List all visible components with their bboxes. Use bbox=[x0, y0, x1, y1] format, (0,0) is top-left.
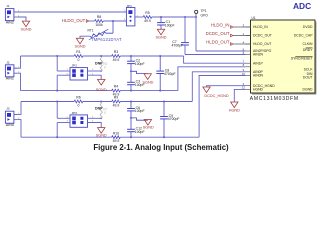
svg-text:DCDC_CAP: DCDC_CAP bbox=[294, 34, 313, 38]
svg-text:100pF: 100pF bbox=[135, 62, 145, 66]
svg-text:HLDO_OUT: HLDO_OUT bbox=[62, 18, 86, 23]
svg-text:R10: R10 bbox=[113, 131, 119, 135]
wire to AIN2P/GPO pin bbox=[196, 50, 246, 52]
ground SGND at RT1 bbox=[76, 38, 83, 44]
wire HGND pin to ground bbox=[234, 89, 245, 101]
svg-text:SGND: SGND bbox=[156, 36, 167, 40]
wire vertical JP3 pin3 to bottom path bbox=[56, 123, 58, 138]
ground HGND bbox=[231, 102, 238, 108]
ground SGND at C1 bbox=[157, 29, 164, 35]
svg-text:SGND: SGND bbox=[96, 88, 107, 92]
wire R5 to TP1 (net AIN2P) bbox=[152, 16, 196, 18]
svg-text:JP1: JP1 bbox=[127, 4, 133, 8]
resistor R1 0 bbox=[74, 55, 83, 58]
svg-text:AIN1P: AIN1P bbox=[253, 61, 264, 65]
svg-text:49.9: 49.9 bbox=[113, 58, 120, 62]
ground DCDC_HGND net symbol bbox=[207, 86, 246, 87]
capacitor C3 100pF bbox=[127, 81, 135, 83]
svg-text:GPO: GPO bbox=[201, 14, 209, 18]
svg-text:SGND: SGND bbox=[75, 45, 86, 49]
capacitor C7 4700pF bbox=[181, 42, 189, 44]
wire JP2 pin1 stub bbox=[57, 70, 70, 72]
IC U1 AMC131M03DFM body bbox=[252, 93, 316, 95]
svg-text:100pF: 100pF bbox=[135, 109, 145, 113]
resistor R5 49.9 bbox=[143, 16, 152, 19]
svg-text:HGND: HGND bbox=[229, 109, 240, 113]
svg-text:SYNC/RESET: SYNC/RESET bbox=[291, 57, 313, 61]
junction C2/C3 column bbox=[130, 55, 132, 57]
connector J1 AIN2 input bbox=[5, 9, 14, 21]
jumper JP1 3-pin header bbox=[126, 8, 134, 26]
svg-text:U1: U1 bbox=[252, 16, 256, 20]
wire top path AIN1P bbox=[21, 55, 75, 57]
svg-text:0: 0 bbox=[78, 104, 80, 108]
ground SGND mid row2 bbox=[144, 74, 151, 80]
ground SGND at JP3 pin4 bbox=[98, 128, 106, 134]
ground SGND at J1 bbox=[22, 21, 29, 27]
junction C1 node bbox=[160, 16, 162, 18]
resistor R9 49.9 bbox=[112, 100, 121, 103]
wire JP2 pin4 to ground bbox=[88, 75, 102, 79]
resistor R2 DNP grey vertical bbox=[100, 58, 102, 71]
jumper JP2 2x2 header bbox=[70, 68, 88, 80]
capacitor C1 100pF bbox=[160, 17, 162, 22]
svg-text:SGND: SGND bbox=[96, 134, 107, 138]
svg-text:HLDO_IN: HLDO_IN bbox=[253, 25, 268, 29]
svg-text:49.9: 49.9 bbox=[113, 104, 120, 108]
wire J3 pin1 up to top path bbox=[14, 102, 21, 115]
wire vertical top path to JP2 pin1 bbox=[56, 56, 58, 71]
ground SGND at JP2 pin4 bbox=[98, 80, 106, 86]
ground SGND mid row3 bbox=[144, 120, 151, 126]
wire R1 to R3 bbox=[83, 55, 112, 57]
svg-text:JP2: JP2 bbox=[72, 64, 78, 68]
capacitor C6 100pF bbox=[130, 102, 132, 109]
svg-text:DRDY: DRDY bbox=[303, 48, 313, 52]
wire J3 pin2 down to bottom path bbox=[17, 120, 21, 138]
connector J2 AIN1 input bbox=[5, 65, 14, 77]
wire R10 to corner bbox=[120, 136, 199, 138]
svg-text:AIN0N: AIN0N bbox=[253, 74, 264, 78]
thermistor RT1 TMP6131DYAT bbox=[112, 21, 114, 33]
wire vertical top path to JP3 pin1 bbox=[56, 102, 58, 119]
wire bottom path AIN0N bbox=[21, 136, 112, 138]
junction R7 top bbox=[100, 102, 102, 104]
svg-text:4700pF: 4700pF bbox=[168, 117, 180, 121]
svg-text:J1: J1 bbox=[6, 4, 10, 8]
resistor R10 49.9 bbox=[112, 136, 121, 139]
IC left pin stubs bbox=[246, 26, 251, 28]
wire AIN1N up to pin bbox=[178, 67, 246, 91]
svg-text:R8: R8 bbox=[97, 15, 101, 19]
svg-text:DVDD: DVDD bbox=[303, 25, 313, 29]
resistor R8 100k bbox=[95, 20, 104, 23]
wire JP2 pin3 stub bbox=[57, 74, 70, 76]
svg-text:SGND: SGND bbox=[143, 125, 154, 129]
wire AIN1P down to pin bbox=[184, 56, 246, 63]
svg-text:DGND: DGND bbox=[303, 88, 314, 92]
svg-text:AIN2: AIN2 bbox=[6, 21, 14, 25]
svg-text:0: 0 bbox=[78, 58, 80, 62]
wire R6 to R9 bbox=[83, 101, 112, 103]
svg-text:100pF: 100pF bbox=[135, 130, 145, 134]
wire bottom path AIN1N bbox=[21, 90, 112, 92]
wire R8 to JP1 pin3 bbox=[103, 20, 126, 22]
wire top path AIN0P bbox=[21, 101, 74, 103]
svg-text:J3: J3 bbox=[6, 107, 10, 111]
wire to AIN2N pin bbox=[185, 54, 246, 56]
svg-text:CLKIN: CLKIN bbox=[303, 42, 314, 46]
wire AIN2N branch down bbox=[184, 17, 186, 42]
ground tap row2 bbox=[131, 71, 148, 73]
wire AIN0N up to pin bbox=[199, 76, 245, 138]
wire JP1 pin2 to R5 bbox=[135, 16, 143, 18]
svg-text:AMC131M03DFM: AMC131M03DFM bbox=[250, 96, 299, 102]
svg-text:0: 0 bbox=[104, 111, 106, 115]
svg-text:DCDC_OUT: DCDC_OUT bbox=[253, 34, 272, 38]
capacitor C12 100pF bbox=[127, 128, 135, 130]
junction C7 branch bbox=[184, 16, 186, 18]
svg-text:ADC: ADC bbox=[293, 1, 311, 11]
svg-text:SCLK: SCLK bbox=[304, 68, 314, 72]
wire AIN2P down bbox=[195, 17, 197, 51]
resistor R3 49.9 bbox=[112, 55, 121, 58]
svg-text:DOUT: DOUT bbox=[303, 76, 313, 80]
svg-text:AIN1: AIN1 bbox=[6, 77, 14, 81]
svg-text:RT1: RT1 bbox=[88, 29, 94, 33]
ground tap row3 bbox=[131, 118, 148, 120]
svg-text:HLDO_IN: HLDO_IN bbox=[211, 22, 230, 27]
wire J1 pin2 to ground bbox=[17, 17, 26, 21]
svg-text:4700pF: 4700pF bbox=[172, 44, 184, 48]
wire J2 pin1 up to top path bbox=[14, 56, 21, 68]
junction R8/RT1 node bbox=[112, 20, 114, 22]
connector J3 AIN0 input bbox=[5, 111, 14, 123]
svg-text:R6: R6 bbox=[76, 96, 80, 100]
wire J1 pin1 to JP1 pin1 bbox=[14, 11, 127, 13]
svg-text:R5: R5 bbox=[145, 11, 149, 15]
capacitor C8 4700pF differential bbox=[159, 55, 161, 57]
svg-text:4700pF: 4700pF bbox=[164, 72, 176, 76]
wire R4 to corner bbox=[120, 90, 178, 92]
svg-text:SGND: SGND bbox=[21, 28, 32, 32]
svg-text:DNP: DNP bbox=[95, 107, 103, 111]
wire JP3 pin3 stub bbox=[57, 122, 70, 124]
capacitor C9 4700pF differential bbox=[163, 100, 165, 102]
svg-text:DCDC_OUT: DCDC_OUT bbox=[206, 31, 230, 36]
wire RT1 to ground bbox=[80, 36, 90, 38]
svg-text:HLDO_OUT: HLDO_OUT bbox=[253, 42, 271, 46]
svg-text:R4: R4 bbox=[114, 85, 118, 89]
svg-text:TMP6131DYAT: TMP6131DYAT bbox=[91, 37, 122, 42]
wire R9 to corner bbox=[120, 101, 192, 103]
wire J2 pin2 down to bottom path bbox=[17, 73, 20, 90]
svg-text:49.9: 49.9 bbox=[144, 19, 151, 23]
junction C6/C12 column bbox=[130, 100, 132, 102]
svg-text:10: 10 bbox=[242, 72, 246, 76]
svg-text:Figure 2-1. Analog Input (Sche: Figure 2-1. Analog Input (Schematic) bbox=[93, 143, 229, 152]
svg-text:100pF: 100pF bbox=[135, 83, 145, 87]
svg-text:DNP: DNP bbox=[95, 61, 103, 65]
wire JP3 pin1 stub bbox=[57, 117, 70, 119]
svg-text:JP3: JP3 bbox=[72, 111, 78, 115]
junction R2 top bbox=[100, 56, 102, 58]
svg-text:R9: R9 bbox=[114, 96, 118, 100]
resistor R4 49.9 bbox=[112, 89, 121, 92]
svg-text:0: 0 bbox=[104, 66, 106, 70]
wire vertical JP2 pin3 to bottom path bbox=[56, 75, 58, 90]
wire JP3 pin4 to ground bbox=[88, 123, 102, 128]
svg-text:100pF: 100pF bbox=[165, 23, 175, 27]
svg-text:DCDC_HGND: DCDC_HGND bbox=[204, 94, 229, 98]
capacitor C2 100pF bbox=[130, 56, 132, 61]
svg-text:J2: J2 bbox=[6, 60, 10, 64]
resistor R6 0 bbox=[74, 100, 83, 103]
svg-text:R3: R3 bbox=[114, 50, 118, 54]
svg-text:TP1: TP1 bbox=[201, 9, 207, 13]
wire JP3 pin2 to R7 bbox=[88, 117, 102, 119]
wire JP2 pin2 to R2 bbox=[88, 70, 102, 72]
jumper JP3 2x2 header bbox=[70, 115, 88, 127]
svg-text:AIN0: AIN0 bbox=[6, 123, 14, 127]
wire AIN0P up to pin bbox=[192, 72, 245, 102]
svg-text:R1: R1 bbox=[76, 50, 80, 54]
svg-text:HGND: HGND bbox=[253, 88, 264, 92]
svg-text:HLDO_OUT: HLDO_OUT bbox=[206, 39, 230, 44]
svg-text:100k: 100k bbox=[95, 23, 103, 27]
wire R3 to corner bbox=[120, 55, 183, 57]
test point TP1 GPO bbox=[195, 16, 197, 18]
resistor R7 DNP grey vertical bbox=[100, 104, 102, 119]
svg-text:AIN2N: AIN2N bbox=[253, 53, 264, 57]
